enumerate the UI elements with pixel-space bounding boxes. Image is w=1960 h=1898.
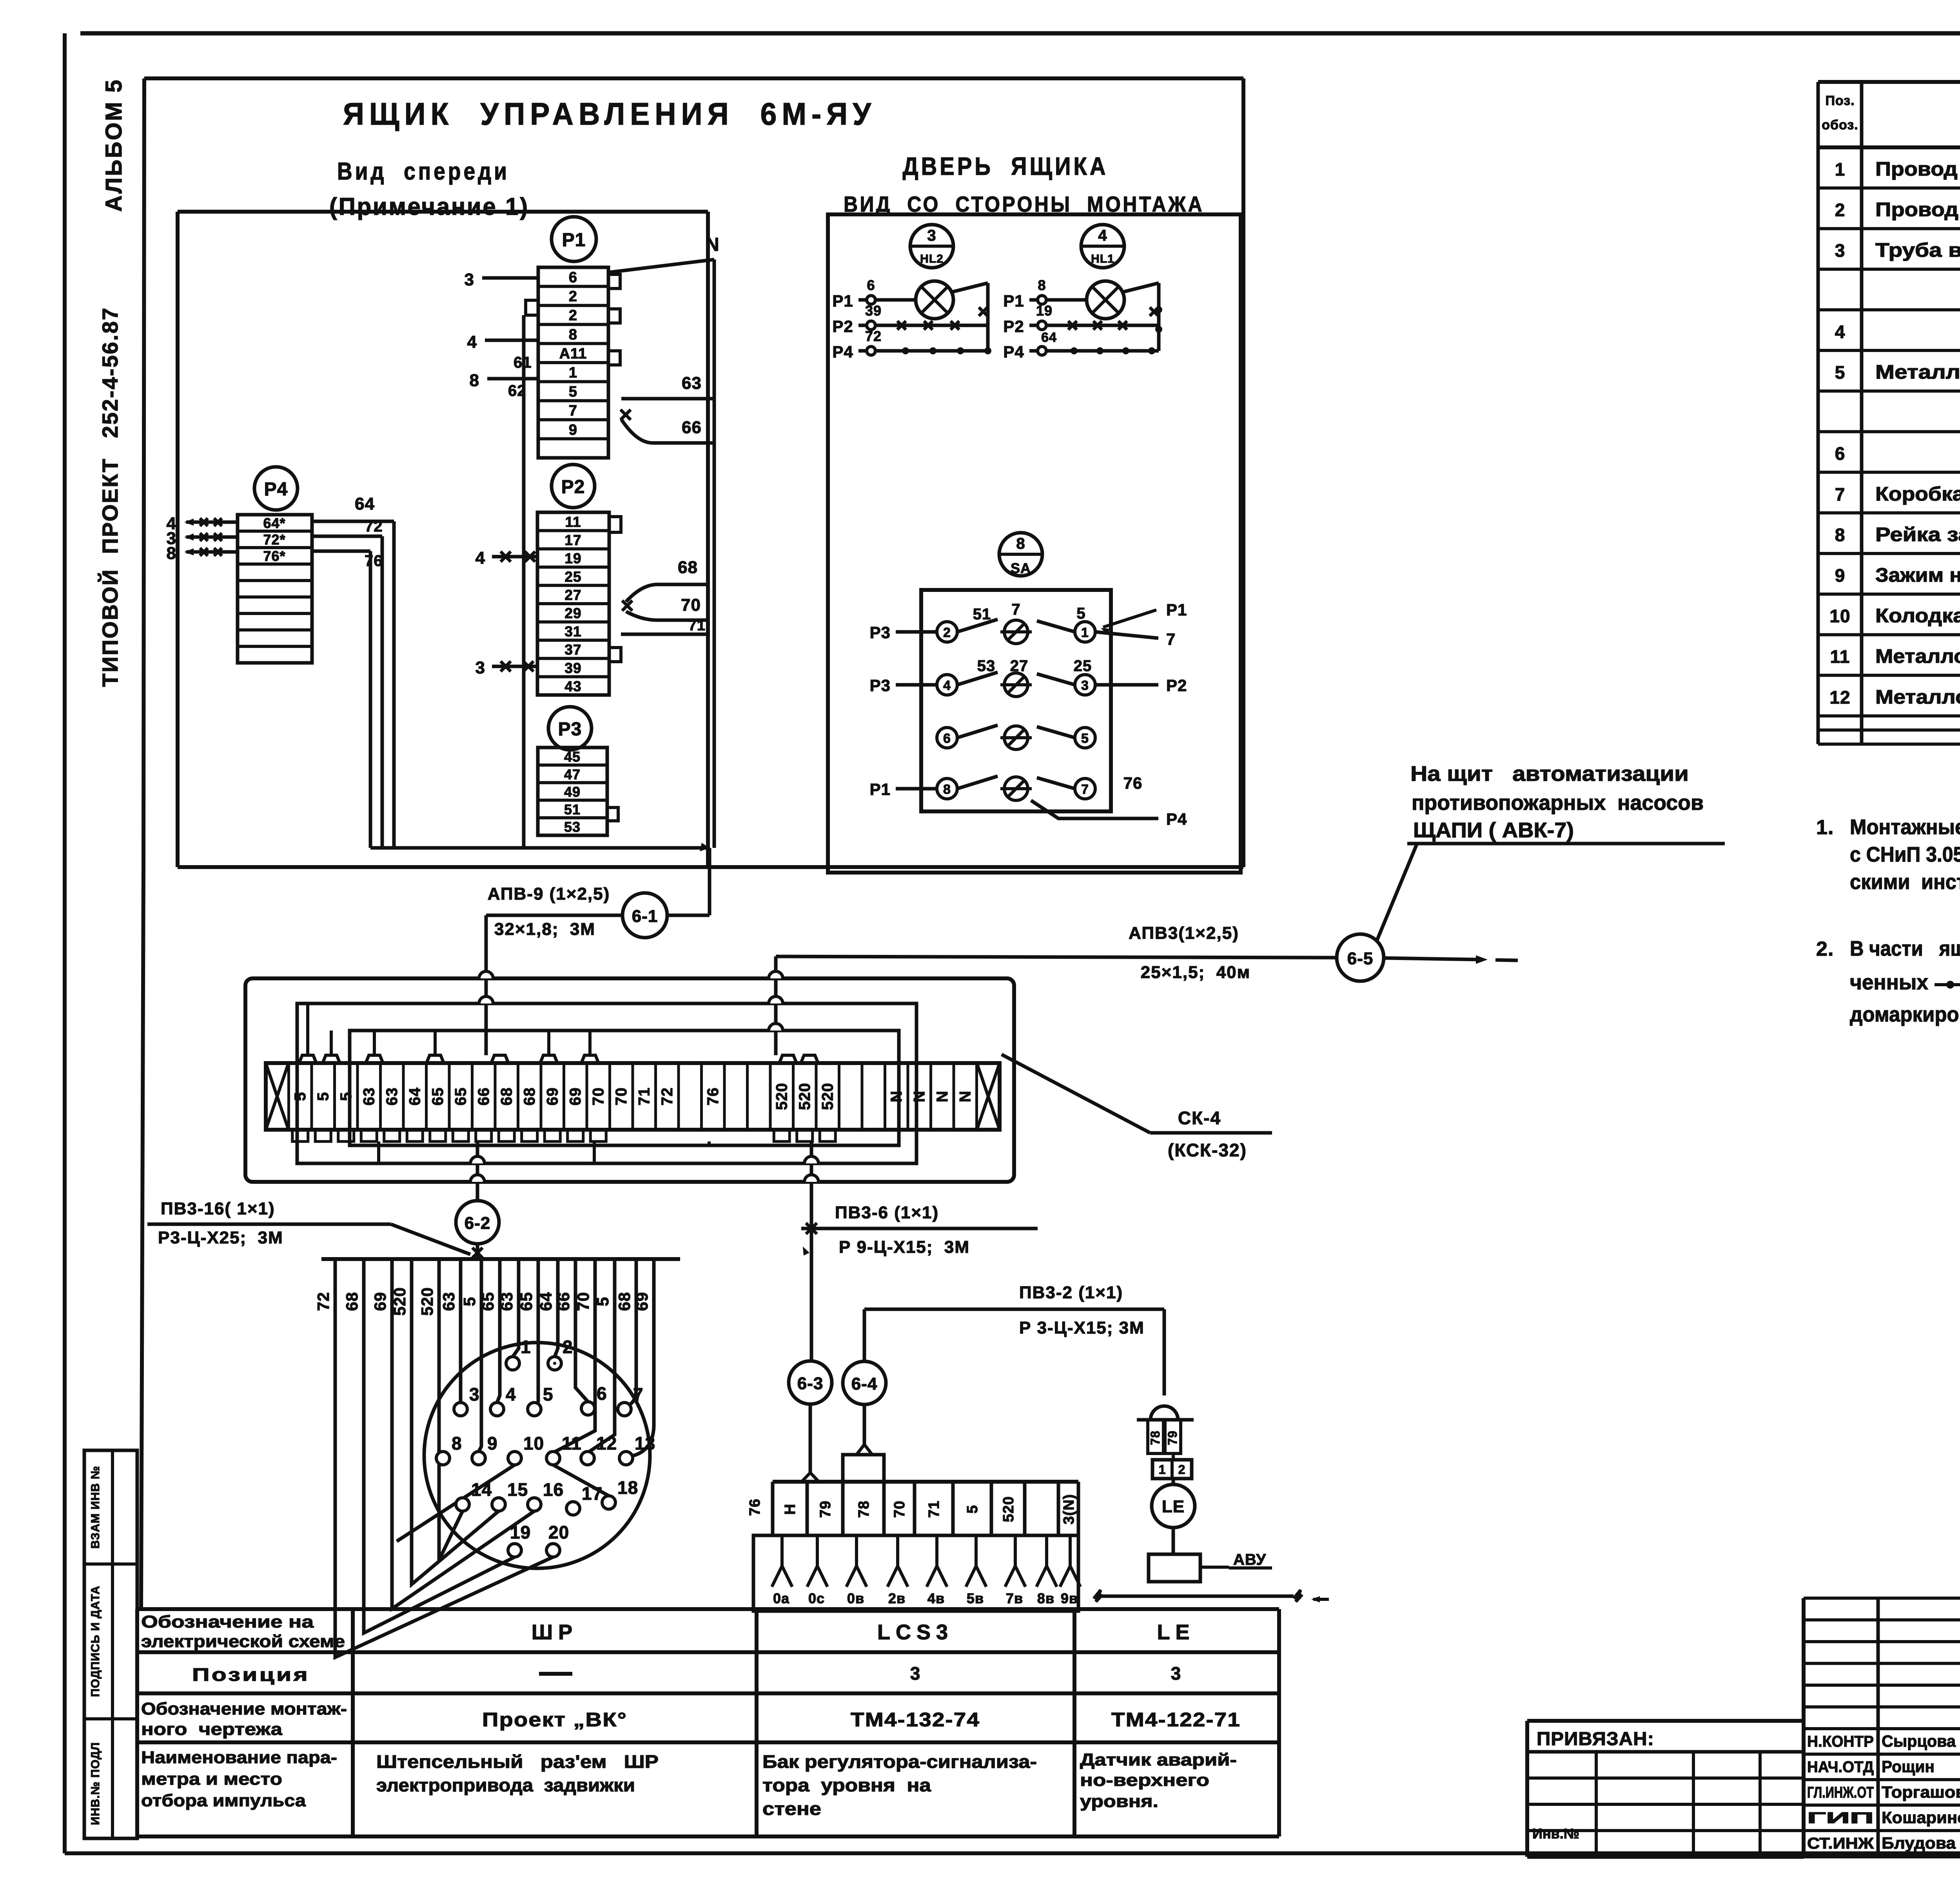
svg-text:9: 9 bbox=[487, 1433, 498, 1453]
svg-text:ПВ3-2 (1×1): ПВ3-2 (1×1) bbox=[1019, 1283, 1123, 1302]
SA contact row 2 bbox=[937, 672, 1095, 697]
title block signature names bbox=[1807, 1732, 1960, 1868]
demounted lead 4 into P4 row1 bbox=[167, 514, 238, 533]
svg-text:АВУ: АВУ bbox=[1233, 1551, 1266, 1568]
cable marker circle 6-4 bbox=[843, 1361, 886, 1404]
subtitle Вид спереди (Примечание 1) bbox=[329, 158, 529, 220]
lamp HL1 bbox=[1087, 281, 1124, 319]
wire 520 feeder from АПВ3 line into CK-4 bbox=[769, 956, 783, 1055]
svg-text:68: 68 bbox=[498, 1087, 515, 1106]
svg-text:64: 64 bbox=[406, 1087, 423, 1106]
lamp designator circle 3/HL2 bbox=[910, 225, 953, 268]
svg-text:51: 51 bbox=[564, 801, 581, 817]
svg-text:ТМ4-132-74: ТМ4-132-74 bbox=[851, 1709, 980, 1731]
svg-text:5: 5 bbox=[964, 1505, 981, 1513]
svg-text:А11: А11 bbox=[559, 345, 587, 362]
svg-text:Р 3-Ц-Х15; 3М: Р 3-Ц-Х15; 3М bbox=[1019, 1318, 1145, 1337]
terminal block P2 designator circle bbox=[552, 465, 595, 508]
svg-text:N: N bbox=[888, 1091, 905, 1102]
svg-text:7: 7 bbox=[1011, 601, 1020, 618]
svg-text:Кошаринова: Кошаринова bbox=[1882, 1808, 1960, 1827]
svg-text:19: 19 bbox=[510, 1522, 531, 1542]
wire 8 with labels 61 62 to P1 row6 bbox=[470, 354, 538, 399]
pin 11 jumper wire bbox=[553, 1465, 609, 1496]
svg-text:68: 68 bbox=[343, 1292, 361, 1311]
wire ПВ3-6 from CK-4 to 6-3 bbox=[803, 1141, 818, 1361]
connector pin 6 bbox=[581, 1383, 607, 1415]
connector pin 2 bbox=[548, 1337, 573, 1370]
svg-text:72: 72 bbox=[365, 518, 383, 535]
svg-text:70: 70 bbox=[613, 1087, 630, 1106]
svg-text:ТИПОВОЙ ПРОЕКТ: ТИПОВОЙ ПРОЕКТ bbox=[98, 458, 122, 687]
svg-text:1.: 1. bbox=[1816, 816, 1834, 839]
connector pin 15 bbox=[492, 1479, 528, 1511]
svg-text:65: 65 bbox=[452, 1087, 469, 1106]
svg-text:Металлоконструкции для креплен: Металлоконструкции для крепления трасс bbox=[1875, 686, 1960, 708]
ШР wire 520 to pin 14 bbox=[439, 1259, 463, 1560]
svg-text:1: 1 bbox=[1081, 625, 1089, 640]
svg-text:6-4: 6-4 bbox=[851, 1374, 878, 1394]
svg-text:11: 11 bbox=[562, 1433, 582, 1453]
ШР wire 65 to pin 4 bbox=[497, 1259, 500, 1403]
svg-text:0в: 0в bbox=[847, 1590, 864, 1606]
wire 4 to P1 row4 bbox=[467, 332, 538, 352]
svg-text:12: 12 bbox=[596, 1433, 617, 1453]
svg-text:5: 5 bbox=[569, 384, 577, 400]
svg-text:3: 3 bbox=[475, 658, 485, 677]
connector pin 14 bbox=[456, 1479, 492, 1511]
svg-text:70: 70 bbox=[681, 595, 701, 615]
left stamp boxes (взам инв / подпись и дата / инв № подл) bbox=[84, 1450, 137, 1838]
svg-text:СТ.ИНЖ: СТ.ИНЖ bbox=[1807, 1835, 1874, 1852]
svg-text:32×1,8; 3М: 32×1,8; 3М bbox=[494, 920, 595, 939]
svg-text:Р4: Р4 bbox=[1166, 810, 1187, 828]
left bus wire from P1 to bottom bbox=[522, 315, 526, 848]
svg-text:уровня.: уровня. bbox=[1080, 1792, 1158, 1811]
connector pin 16 bbox=[528, 1479, 564, 1511]
svg-text:Провод установочный АПВ-2,0-3: Провод установочный АПВ-2,0-380 bbox=[1875, 199, 1960, 221]
label СК-4 (КСК-32) with leader bbox=[1002, 1054, 1272, 1160]
connector circle ШР bbox=[424, 1343, 650, 1568]
svg-text:(Примечание 1): (Примечание 1) bbox=[329, 193, 529, 220]
front view box bbox=[178, 212, 708, 867]
svg-text:Р2: Р2 bbox=[1166, 676, 1187, 695]
svg-text:ГЛ.ИНЖ.ОТ: ГЛ.ИНЖ.ОТ bbox=[1807, 1784, 1874, 1801]
svg-text:2в: 2в bbox=[888, 1590, 906, 1606]
LE pedestal and АВУ label bbox=[1149, 1528, 1272, 1582]
svg-text:53: 53 bbox=[977, 657, 996, 675]
wire ПВ3-16 from CK-4 down through 6-2 bbox=[470, 1141, 485, 1259]
door view box bbox=[828, 214, 1241, 873]
svg-text:стене: стене bbox=[762, 1798, 821, 1819]
svg-text:Колодка маркировочная КМ-4: Колодка маркировочная КМ-4 bbox=[1875, 605, 1960, 627]
svg-text:3: 3 bbox=[469, 1384, 480, 1404]
svg-text:79: 79 bbox=[817, 1501, 834, 1518]
LCS3 terminal 0а bbox=[772, 1535, 792, 1606]
cable marker circle 6-1 bbox=[622, 893, 667, 938]
svg-text:64*: 64* bbox=[263, 515, 285, 531]
ШР wire 66 to pin 6 bbox=[575, 1259, 588, 1402]
svg-text:63: 63 bbox=[360, 1087, 377, 1106]
svg-text:LCS3: LCS3 bbox=[877, 1620, 953, 1644]
svg-text:6-5: 6-5 bbox=[1347, 949, 1374, 968]
terminal block P3 bbox=[538, 748, 607, 835]
ШР wire 70 to pin 11 bbox=[553, 1259, 595, 1453]
svg-text:На щит автоматизации: На щит автоматизации bbox=[1410, 762, 1689, 786]
svg-text:Блудова: Блудова bbox=[1882, 1834, 1956, 1852]
svg-text:2: 2 bbox=[1178, 1463, 1186, 1477]
svg-text:Р2: Р2 bbox=[1003, 317, 1024, 336]
svg-text:Провод установочный ПВ3-1-380: Провод установочный ПВ3-1-380 ГОСТ 6323-… bbox=[1875, 158, 1960, 180]
svg-text:Р3: Р3 bbox=[870, 676, 891, 695]
ШР wire 64 to pin 2 bbox=[555, 1259, 558, 1357]
svg-text:скими инструкциями по монта: скими инструкциями по монтажу и эксплуат… bbox=[1850, 870, 1960, 894]
svg-text:8: 8 bbox=[1038, 277, 1046, 293]
ШР wire 69 to pin 13 bbox=[633, 1259, 654, 1456]
svg-text:ВЗАМ ИНВ №: ВЗАМ ИНВ № bbox=[89, 1466, 102, 1549]
svg-text:15: 15 bbox=[507, 1479, 528, 1500]
svg-text:Проект „ВК°: Проект „ВК° bbox=[482, 1709, 627, 1731]
svg-text:11: 11 bbox=[565, 514, 581, 530]
svg-text:520: 520 bbox=[418, 1287, 436, 1316]
svg-text:2: 2 bbox=[1835, 200, 1846, 220]
svg-text:Р 9-Ц-Х15; 3М: Р 9-Ц-Х15; 3М bbox=[839, 1238, 970, 1257]
svg-text:71: 71 bbox=[635, 1087, 653, 1106]
svg-text:7: 7 bbox=[633, 1384, 644, 1404]
LCS3 lower box bbox=[753, 1535, 1078, 1611]
CK-4 strip bottom tabs bbox=[292, 1130, 836, 1141]
connector pin 17 bbox=[566, 1483, 603, 1515]
svg-text:18: 18 bbox=[617, 1477, 638, 1498]
svg-text:Рейка зажимов Р3-8: Рейка зажимов Р3-8 bbox=[1875, 523, 1960, 545]
svg-text:7: 7 bbox=[1835, 484, 1846, 504]
bottom parameters table bbox=[137, 1609, 1279, 1836]
svg-text:9в: 9в bbox=[1061, 1590, 1078, 1606]
bottom table row 1: Обозначение на электрической схеме bbox=[141, 1612, 1195, 1651]
parts table row 12 bbox=[1829, 605, 1960, 627]
ШР wire 5 to pin 9 bbox=[479, 1259, 481, 1452]
subtitle Дверь ящика / Вид со стороны монтажа bbox=[844, 152, 1204, 216]
svg-text:14: 14 bbox=[471, 1479, 492, 1500]
svg-text:Р1: Р1 bbox=[870, 780, 891, 798]
svg-text:ПРИВЯЗАН:: ПРИВЯЗАН: bbox=[1537, 1729, 1654, 1749]
svg-text:с СНиП 3.05.07-85, нормалями „: с СНиП 3.05.07-85, нормалями „Главмонтаж… bbox=[1850, 843, 1960, 866]
SA row2 labels 53 27 25 bbox=[977, 657, 1092, 675]
svg-text:8: 8 bbox=[470, 371, 479, 390]
level sensor LE circle bbox=[1152, 1479, 1195, 1528]
svg-text:P2: P2 bbox=[561, 477, 585, 497]
ШР wire 69 to pin 16 bbox=[392, 1259, 534, 1609]
svg-text:76*: 76* bbox=[263, 548, 285, 564]
cable marker circle 6-3 bbox=[789, 1361, 832, 1404]
svg-text:Позиция: Позиция bbox=[192, 1664, 310, 1685]
wire АПВ-9 from box to CK-4 with marker 6-1 bbox=[479, 848, 710, 1055]
svg-text:4: 4 bbox=[1835, 321, 1846, 342]
svg-text:6: 6 bbox=[569, 269, 577, 286]
LCS3 terminal 8в bbox=[1036, 1535, 1057, 1606]
svg-text:4: 4 bbox=[506, 1384, 516, 1404]
SA output row4 to Р4 with 76 bbox=[1031, 774, 1187, 828]
SA row1 labels 51 7 5 bbox=[973, 601, 1086, 623]
svg-text:43: 43 bbox=[564, 678, 581, 694]
svg-text:13: 13 bbox=[635, 1433, 655, 1453]
svg-text:5в: 5в bbox=[967, 1590, 984, 1606]
svg-text:ЯЩИК УПРАВЛЕНИЯ 6М-ЯУ: ЯЩИК УПРАВЛЕНИЯ 6М-ЯУ bbox=[343, 96, 876, 131]
label ПВ3-16 (1x1) / Р3-Ц-Х25 3М bbox=[147, 1199, 470, 1254]
svg-text:Обозначение на: Обозначение на bbox=[141, 1612, 314, 1631]
parts list table bbox=[1818, 82, 1960, 744]
SA output row1 to Р1 and 7 bbox=[1095, 601, 1187, 648]
connector pin 11 bbox=[546, 1433, 582, 1465]
SA contact row 4 bbox=[937, 776, 1095, 800]
terminal box 1 2 bbox=[1152, 1453, 1192, 1479]
svg-text:НАЧ.ОТД: НАЧ.ОТД bbox=[1807, 1758, 1874, 1776]
svg-text:6: 6 bbox=[597, 1383, 607, 1404]
lamp designator circle 4/HL1 bbox=[1081, 225, 1124, 268]
svg-text:2: 2 bbox=[569, 307, 577, 324]
svg-text:7в: 7в bbox=[1006, 1590, 1023, 1606]
svg-text:520: 520 bbox=[796, 1083, 813, 1110]
svg-text:10: 10 bbox=[1829, 606, 1850, 626]
svg-text:79: 79 bbox=[1165, 1430, 1180, 1445]
lamp HL2 circuit row P1 bbox=[832, 277, 916, 310]
svg-text:Поз.: Поз. bbox=[1825, 93, 1855, 108]
cable marker circle 6-5 bbox=[1337, 934, 1384, 981]
ШР wire 68 to pin 7 bbox=[627, 1259, 636, 1405]
svg-text:7: 7 bbox=[1081, 782, 1089, 797]
notes paragraph 1 bbox=[1816, 815, 1960, 894]
svg-text:5: 5 bbox=[1081, 731, 1089, 746]
svg-text:7: 7 bbox=[569, 403, 577, 419]
svg-text:6-3: 6-3 bbox=[797, 1374, 824, 1393]
svg-text:72: 72 bbox=[659, 1087, 676, 1106]
svg-text:но-верхнего: но-верхнего bbox=[1080, 1771, 1209, 1790]
svg-text:45: 45 bbox=[564, 749, 581, 765]
svg-text:1: 1 bbox=[569, 365, 577, 381]
SA lead Р3 row1 bbox=[870, 623, 937, 642]
lamp HL2 circuit row P2 (demounted) bbox=[832, 303, 988, 336]
svg-text:6-2: 6-2 bbox=[465, 1214, 491, 1233]
lamp HL2 bbox=[916, 281, 953, 319]
svg-text:противопожарных насосов: противопожарных насосов bbox=[1412, 791, 1704, 815]
svg-text:69: 69 bbox=[544, 1087, 561, 1106]
LCS3 terminal block top bus bbox=[773, 1455, 1078, 1482]
svg-text:29: 29 bbox=[564, 605, 581, 621]
terminal block P4 designator circle bbox=[254, 467, 298, 510]
svg-text:5: 5 bbox=[338, 1092, 355, 1101]
svg-text:3(N): 3(N) bbox=[1061, 1494, 1077, 1524]
LCS3 terminal 4в bbox=[927, 1535, 947, 1606]
svg-text:обоз.: обоз. bbox=[1822, 118, 1858, 132]
ШР wire 63 to pin 3 bbox=[459, 1259, 463, 1403]
svg-text:25: 25 bbox=[564, 569, 581, 585]
svg-text:71: 71 bbox=[688, 617, 706, 634]
terminal block P4 bbox=[238, 515, 312, 663]
svg-text:LE: LE bbox=[1162, 1497, 1185, 1516]
svg-text:66: 66 bbox=[475, 1087, 492, 1106]
parts table row 5 bbox=[1835, 321, 1960, 342]
wire from 6-3 into LCS3 block bbox=[802, 1404, 819, 1482]
svg-text:4: 4 bbox=[467, 332, 477, 352]
svg-text:АЛЬБОМ 5: АЛЬБОМ 5 bbox=[101, 78, 127, 212]
svg-text:53: 53 bbox=[564, 819, 581, 835]
lamp HL1 circuit row P2 (demounted) bbox=[1003, 303, 1159, 345]
wire АПВ3 1x2.5 to 6-5 bbox=[776, 924, 1337, 982]
svg-text:8: 8 bbox=[943, 782, 951, 797]
label ПВ3-6 (1x1) / Р9-Ц-Х15 3М bbox=[801, 1203, 1038, 1257]
svg-text:9: 9 bbox=[1835, 565, 1846, 586]
svg-text:Наименование пара-: Наименование пара- bbox=[141, 1748, 337, 1767]
connector pin 18 bbox=[602, 1477, 638, 1509]
svg-text:ченных: ченных bbox=[1850, 971, 1928, 994]
svg-text:17: 17 bbox=[564, 532, 581, 548]
svg-text:8: 8 bbox=[1016, 535, 1025, 552]
parts table row 9 bbox=[1835, 483, 1960, 505]
svg-text:64: 64 bbox=[1041, 330, 1057, 345]
svg-text:1: 1 bbox=[1159, 1463, 1166, 1477]
parts table row 6 bbox=[1835, 361, 1960, 383]
svg-text:3: 3 bbox=[927, 227, 936, 244]
attachment table ПРИВЯЗАН bbox=[1527, 1721, 1804, 1857]
svg-text:Р4: Р4 bbox=[1003, 343, 1024, 361]
P1 left tab bbox=[526, 300, 538, 315]
svg-text:4: 4 bbox=[475, 548, 485, 568]
svg-text:Штепсельный раз'ем ШР: Штепсельный раз'ем ШР bbox=[376, 1751, 659, 1772]
ШР wire 63 to pin 1 bbox=[513, 1259, 519, 1357]
wire 76 from P4 bbox=[312, 551, 383, 570]
wire 72 from P4 bbox=[312, 518, 383, 536]
svg-text:65: 65 bbox=[429, 1087, 446, 1106]
SA lead Р1 row4 bbox=[870, 780, 937, 798]
svg-text:АПВ-9 (1×2,5): АПВ-9 (1×2,5) bbox=[488, 884, 610, 904]
svg-text:1: 1 bbox=[1835, 159, 1846, 180]
svg-text:электропривода задвижки: электропривода задвижки bbox=[376, 1775, 635, 1795]
svg-text:6: 6 bbox=[1835, 443, 1846, 464]
svg-text:5: 5 bbox=[543, 1384, 554, 1404]
bottom table row 3: Обозначение монтажного чертежа bbox=[141, 1699, 1241, 1739]
svg-text:76: 76 bbox=[704, 1087, 722, 1106]
SA contact row 3 bbox=[937, 725, 1095, 749]
svg-text:70: 70 bbox=[590, 1087, 607, 1106]
svg-text:39: 39 bbox=[865, 303, 882, 319]
svg-text:Обозначение монтаж-: Обозначение монтаж- bbox=[141, 1699, 347, 1718]
terminal strip CK-4 bbox=[266, 1063, 1000, 1130]
svg-text:72: 72 bbox=[314, 1292, 332, 1311]
parts table row 3 bbox=[1835, 239, 1960, 261]
junction box CK-4 middle box bbox=[297, 1003, 916, 1163]
ШР wire labels bbox=[314, 1287, 651, 1316]
svg-text:70: 70 bbox=[891, 1501, 908, 1518]
svg-text:63: 63 bbox=[383, 1087, 401, 1106]
ШР cable terminal strip bbox=[321, 1257, 680, 1261]
sensor cable entry dome with cells 78 79 bbox=[1137, 1406, 1194, 1453]
ШР wire 68 to pin 19 bbox=[364, 1259, 515, 1633]
svg-text:ГИП: ГИП bbox=[1807, 1809, 1874, 1827]
svg-text:10: 10 bbox=[523, 1433, 544, 1453]
wire from lamp HL1 to return bus bbox=[1123, 283, 1162, 351]
svg-text:Р3: Р3 bbox=[870, 623, 891, 642]
title block signature grid bbox=[1804, 1598, 1960, 1857]
svg-text:HL1: HL1 bbox=[1091, 252, 1114, 265]
svg-text:СК-4: СК-4 bbox=[1178, 1108, 1221, 1128]
svg-text:16: 16 bbox=[543, 1479, 564, 1500]
svg-text:АПВ3(1×2,5): АПВ3(1×2,5) bbox=[1129, 924, 1239, 943]
svg-text:8в: 8в bbox=[1037, 1590, 1054, 1606]
svg-text:20: 20 bbox=[548, 1522, 569, 1542]
svg-text:69: 69 bbox=[371, 1292, 389, 1311]
svg-text:66: 66 bbox=[682, 418, 702, 437]
SA contact row 1 bbox=[937, 619, 1095, 644]
svg-text:76: 76 bbox=[1123, 774, 1143, 792]
svg-text:метра и место: метра и место bbox=[141, 1769, 282, 1789]
connector pin 7 bbox=[618, 1384, 644, 1416]
svg-text:Металлорукав ТУ 22.3988-77: Металлорукав ТУ 22.3988-77 bbox=[1875, 361, 1960, 383]
connector pin 13 bbox=[619, 1433, 655, 1465]
svg-text:Н: Н bbox=[782, 1504, 799, 1515]
cable marker circle 6-2 bbox=[456, 1201, 499, 1244]
svg-text:2.: 2. bbox=[1816, 938, 1834, 960]
svg-text:Зажим наборный ЗН-Н: Зажим наборный ЗН-Н bbox=[1875, 564, 1960, 586]
svg-text:2: 2 bbox=[569, 289, 577, 305]
wire 66 bbox=[621, 410, 714, 443]
svg-text:39: 39 bbox=[564, 660, 581, 676]
bottom table row 2: Позиция bbox=[192, 1663, 1181, 1685]
parts table headers bbox=[1822, 93, 1960, 132]
svg-text:Р1: Р1 bbox=[832, 292, 853, 310]
wire 63 bbox=[621, 374, 714, 399]
svg-text:отбора импульса: отбора импульса bbox=[141, 1791, 306, 1810]
svg-text:Торгашов: Торгашов bbox=[1882, 1783, 1960, 1801]
svg-text:47: 47 bbox=[564, 766, 581, 782]
svg-text:1: 1 bbox=[521, 1337, 531, 1357]
svg-text:ТМ4-122-71: ТМ4-122-71 bbox=[1111, 1709, 1241, 1731]
svg-text:8: 8 bbox=[1835, 524, 1846, 545]
svg-text:19: 19 bbox=[564, 550, 581, 566]
svg-text:Вид спереди: Вид спереди bbox=[337, 158, 510, 185]
lamp HL1 circuit row P1 bbox=[1003, 277, 1087, 310]
lamp HL2 circuit row P4 (mounted) bbox=[832, 328, 991, 361]
svg-text:4в: 4в bbox=[927, 1590, 945, 1606]
LCS3 terminal 0в bbox=[846, 1535, 867, 1606]
connector pin 3 bbox=[454, 1384, 480, 1416]
terminal block P1 designator circle bbox=[552, 217, 596, 261]
svg-text:4: 4 bbox=[1098, 227, 1107, 244]
svg-text:520: 520 bbox=[1000, 1496, 1017, 1522]
demounted lead 3 into P4 row2 bbox=[167, 529, 238, 548]
svg-text:72*: 72* bbox=[263, 532, 285, 548]
parts table row 2 bbox=[1835, 199, 1960, 221]
ШР wire 72 to pin 20 bbox=[335, 1259, 553, 1657]
CK-4 strip top tabs bbox=[299, 1055, 818, 1063]
svg-text:ПВ3-16( 1×1): ПВ3-16( 1×1) bbox=[161, 1199, 275, 1218]
LCS3 terminal cells bbox=[747, 1482, 1078, 1535]
ШР wire 5 to pin 12 bbox=[588, 1259, 615, 1453]
svg-text:ИНВ.№ ПОДЛ: ИНВ.№ ПОДЛ bbox=[89, 1742, 102, 1825]
svg-text:2: 2 bbox=[943, 625, 951, 640]
svg-text:49: 49 bbox=[564, 784, 581, 800]
svg-text:78: 78 bbox=[1148, 1430, 1162, 1445]
svg-text:2: 2 bbox=[563, 1337, 573, 1357]
parts table row 8 bbox=[1835, 443, 1960, 464]
svg-text:6: 6 bbox=[867, 277, 875, 293]
svg-text:(КСК-32): (КСК-32) bbox=[1168, 1140, 1247, 1160]
terminal block P1 bbox=[538, 267, 608, 458]
svg-text:SA: SA bbox=[1011, 560, 1031, 576]
svg-text:5: 5 bbox=[292, 1092, 309, 1101]
svg-text:27: 27 bbox=[564, 587, 581, 603]
svg-text:5: 5 bbox=[1835, 362, 1846, 383]
svg-text:8: 8 bbox=[569, 327, 577, 343]
